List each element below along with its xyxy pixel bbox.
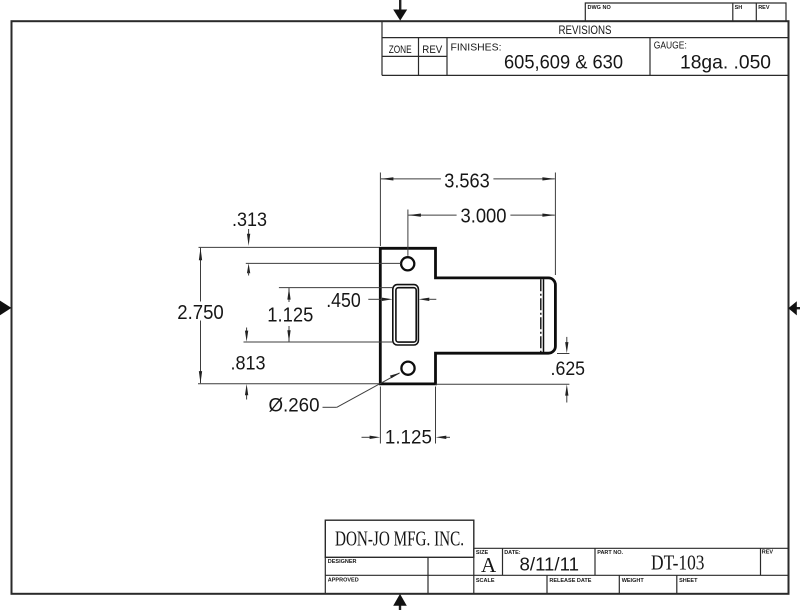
title block small labels	[328, 550, 774, 584]
svg-text:SCALE: SCALE	[476, 578, 495, 584]
svg-text:8/11/11: 8/11/11	[520, 555, 580, 575]
top strip labels	[588, 5, 770, 11]
svg-text:REV: REV	[762, 550, 774, 556]
svg-text:REV: REV	[422, 44, 443, 56]
svg-text:SHEET: SHEET	[679, 578, 698, 584]
part outline	[380, 248, 555, 384]
latch opening inner	[396, 288, 416, 342]
svg-text:REV: REV	[758, 5, 770, 11]
svg-text:DATE:: DATE:	[504, 550, 521, 556]
svg-text:RELEASE DATE: RELEASE DATE	[549, 578, 591, 584]
svg-text:2.750: 2.750	[177, 302, 224, 324]
dim 1.125 bottom	[362, 387, 451, 444]
svg-text:.813: .813	[231, 353, 266, 374]
svg-text:1.125: 1.125	[267, 305, 313, 327]
bottom screw hole	[401, 362, 414, 375]
part bottom extension line left	[198, 383, 379, 385]
lip bend centerline dash-dot	[540, 279, 542, 352]
svg-text:3.563: 3.563	[444, 171, 490, 193]
centering mark left	[0, 301, 11, 316]
top strip boxes (DWG NO / SH / REV)	[585, 3, 786, 21]
svg-text:SH: SH	[735, 5, 743, 11]
dim 3.563	[380, 173, 555, 276]
svg-text:APPROVED: APPROVED	[328, 578, 359, 584]
svg-text:.625: .625	[551, 359, 586, 380]
svg-text:DWG NO: DWG NO	[588, 5, 612, 11]
svg-text:605,609 & 630: 605,609 & 630	[504, 52, 623, 73]
svg-text:PART NO.: PART NO.	[597, 550, 623, 556]
dim 2.750	[200, 248, 202, 383]
svg-text:A: A	[481, 553, 497, 577]
revisions table grid	[382, 22, 788, 76]
centering mark top	[393, 0, 407, 21]
svg-text:GAUGE:: GAUGE:	[654, 40, 687, 52]
svg-text:.450: .450	[326, 290, 361, 312]
dim 3.000	[408, 210, 555, 256]
title block grid	[325, 548, 787, 593]
svg-text:DESIGNER: DESIGNER	[328, 559, 357, 565]
title block: company box	[325, 520, 474, 557]
svg-text:Ø.260: Ø.260	[269, 395, 320, 416]
centering mark bottom	[393, 594, 407, 610]
svg-text:DT-103: DT-103	[651, 551, 705, 575]
svg-text:DON-JO MFG. INC.: DON-JO MFG. INC.	[335, 527, 464, 551]
dim .813	[246, 328, 248, 332]
svg-text:18ga. .050: 18ga. .050	[680, 52, 771, 73]
svg-text:1.125: 1.125	[385, 428, 432, 449]
top screw hole	[401, 257, 414, 270]
lip bend line solid	[543, 279, 545, 352]
svg-text:FINISHES:: FINISHES:	[451, 42, 502, 54]
svg-text:.313: .313	[232, 209, 267, 231]
svg-text:WEIGHT: WEIGHT	[622, 578, 645, 584]
svg-text:3.000: 3.000	[461, 205, 507, 227]
centering mark right	[788, 301, 800, 315]
svg-text:REVISIONS: REVISIONS	[559, 23, 612, 37]
dim .625	[436, 337, 570, 403]
latch opening outer	[393, 285, 419, 345]
svg-text:ZONE: ZONE	[389, 44, 412, 56]
dim 1.125 latch height	[244, 288, 394, 342]
